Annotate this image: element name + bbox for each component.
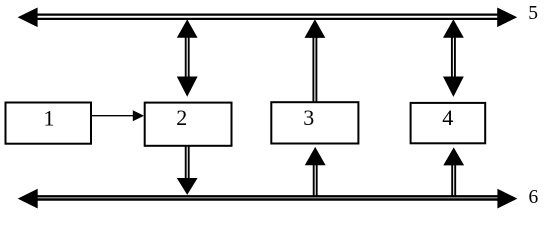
bus link bus 6 to block4 (double-line wire, up arrow) — [443, 147, 464, 195]
svg-text:2: 2 — [176, 105, 187, 130]
svg-text:4: 4 — [442, 105, 453, 130]
block 2 — [145, 103, 232, 146]
bus 5 right arrowhead — [497, 8, 517, 28]
bus 6 right arrowhead — [497, 189, 517, 209]
arrow block1 to block2 — [91, 110, 144, 121]
bus link block3 to bus 5 (double-line wire, up arrow) — [305, 19, 326, 102]
bus 6 left arrowhead — [18, 189, 38, 209]
svg-text:6: 6 — [529, 187, 539, 208]
block 4 — [411, 103, 486, 143]
bus 6 double line (bottom system bus) — [34, 196, 500, 199]
bidirectional bus link block4 and bus 5 (double-line wire) — [443, 19, 464, 97]
svg-text:3: 3 — [303, 105, 314, 130]
bus link block2 to bus 6 (double-line wire, down arrow) — [177, 146, 198, 195]
bidirectional bus link block2 and bus 5 (double-line wire) — [177, 19, 198, 96]
block 3 — [271, 102, 358, 143]
block 1 — [6, 103, 92, 144]
svg-text:1: 1 — [44, 105, 55, 130]
bus 5 double line (top system bus) — [34, 15, 500, 19]
bus 5 left arrowhead — [18, 8, 38, 28]
svg-text:5: 5 — [528, 3, 538, 24]
bus link bus 6 to block3 (double-line wire, up arrow) — [305, 147, 326, 196]
